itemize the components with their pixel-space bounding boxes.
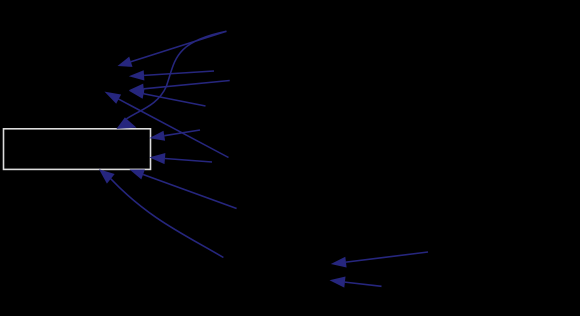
edge e3 (node3 -> cluster C)	[129, 89, 206, 106]
edge e9 curved (node9 -> box bottom edge)	[99, 169, 223, 257]
edge e11 (node11 -> node9 head)	[330, 277, 382, 288]
box node (visible rectangle)	[4, 129, 151, 170]
edge e6 (node6 -> box right edge)	[149, 153, 212, 164]
edge e2 (node2 -> cluster B)	[129, 70, 214, 80]
edge e8 (node8 -> box bottom edge)	[130, 170, 237, 209]
edge e7 (node7 -> box right edge)	[149, 130, 200, 141]
edge e1 (node1 -> cluster A)	[118, 31, 227, 67]
edge e5 (node5 -> cluster D)	[105, 92, 229, 158]
edge e4 (node4 -> cluster C)	[129, 81, 230, 94]
edge e12 curved (node1 -> box top edge)	[116, 31, 226, 129]
edge e10 (node10 -> node9 head)	[331, 252, 428, 268]
